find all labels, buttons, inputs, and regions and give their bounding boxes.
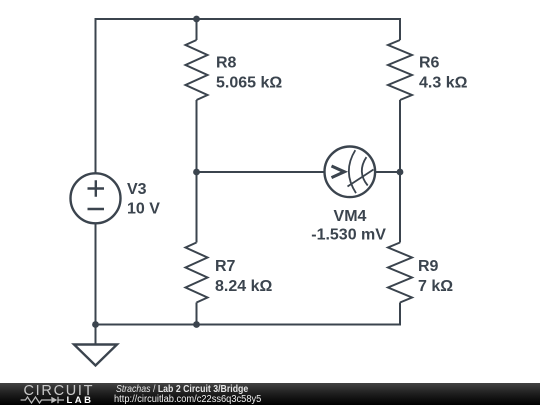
svg-text:R9: R9	[418, 258, 439, 275]
wire right vertical bottom stub	[399, 303, 401, 326]
svg-text:5.065 kΩ: 5.065 kΩ	[216, 75, 282, 92]
wire ground stub	[95, 325, 97, 345]
wire middle vertical mid	[196, 100, 198, 243]
resistor R7	[186, 243, 208, 303]
node dot bottom middle	[193, 321, 200, 328]
resistor R6	[388, 40, 412, 100]
wire left vertical upper	[95, 18, 97, 174]
svg-text:10 V: 10 V	[127, 201, 160, 218]
node dot top middle	[193, 16, 200, 23]
svg-text:8.24 kΩ: 8.24 kΩ	[215, 278, 272, 295]
wire right vertical top stub	[399, 18, 401, 40]
svg-text:V3: V3	[127, 181, 147, 198]
svg-text:4.3 kΩ: 4.3 kΩ	[419, 75, 468, 92]
wire middle vertical top stub	[196, 18, 198, 40]
ground	[74, 345, 117, 366]
voltage source V3	[71, 173, 121, 223]
footer bar	[0, 383, 540, 405]
svg-text:R7: R7	[215, 258, 236, 275]
wire left vertical lower	[95, 223, 97, 325]
svg-text:-1.530 mV: -1.530 mV	[311, 227, 386, 244]
wire middle vertical bottom stub	[196, 303, 198, 326]
footer url	[114, 394, 261, 405]
logo squiggle	[20, 395, 66, 405]
svg-text:R8: R8	[216, 55, 237, 72]
node dot right middle	[397, 169, 404, 176]
wire top horizontal	[95, 18, 402, 20]
svg-text:7 kΩ: 7 kΩ	[418, 278, 453, 295]
svg-text:R6: R6	[419, 55, 440, 72]
wire middle horizontal right	[375, 171, 400, 173]
resistor R9	[388, 243, 412, 303]
logo CIRCUIT	[24, 383, 95, 399]
footer title	[116, 384, 248, 395]
wire right vertical mid	[399, 100, 401, 243]
svg-text:VM4: VM4	[334, 208, 367, 225]
node dot middle	[193, 169, 200, 176]
resistor R8	[186, 40, 208, 100]
node dot bottom left	[92, 321, 99, 328]
wire middle horizontal left	[197, 171, 325, 173]
logo LAB	[67, 395, 94, 406]
voltmeter VM4	[325, 147, 376, 198]
wire bottom horizontal	[95, 324, 402, 326]
